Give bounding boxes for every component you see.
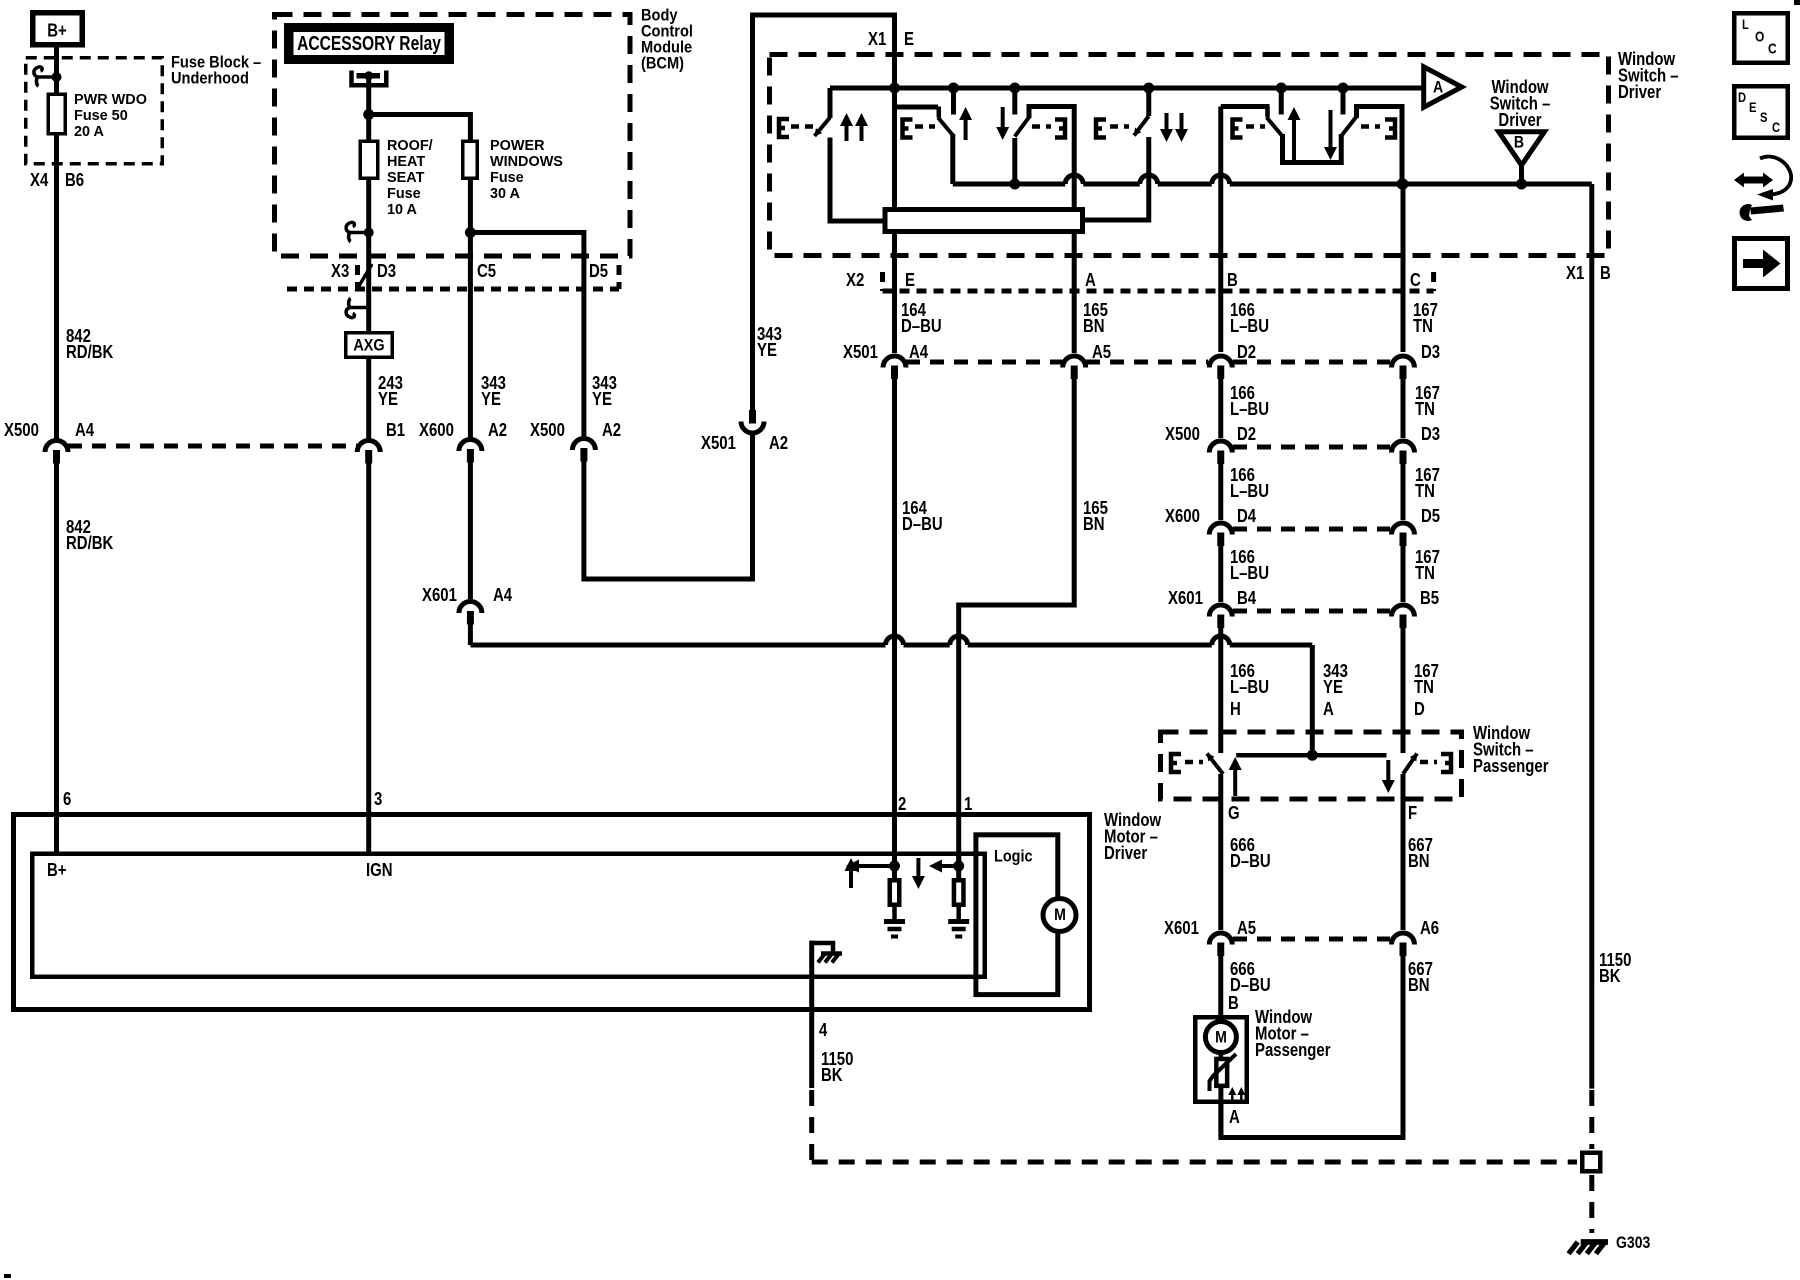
fuse ROOF/HEAT SEAT 10A — [360, 141, 378, 178]
svg-text:D–BU: D–BU — [901, 316, 942, 337]
hop over 165 wire — [950, 636, 968, 645]
svg-text:C: C — [1410, 270, 1421, 291]
svg-text:AXG: AXG — [353, 336, 384, 354]
svg-text:C: C — [1768, 41, 1777, 57]
wire: triangle B to output line — [1519, 165, 1524, 184]
passenger up arrow — [1233, 768, 1237, 796]
window motor driver outer box — [14, 815, 1090, 1010]
svg-text:B1: B1 — [386, 420, 405, 441]
terminal hook below X3 — [346, 299, 367, 318]
battery B+ box — [33, 13, 83, 45]
wire: S3 to bus bar — [1085, 137, 1149, 220]
svg-text:D5: D5 — [1421, 506, 1440, 527]
svg-text:D: D — [1414, 699, 1425, 720]
left arrow from pin2 — [857, 864, 895, 868]
svg-text:Fuse 50: Fuse 50 — [74, 108, 128, 124]
svg-text:POWER: POWER — [490, 138, 545, 154]
AXG box — [346, 333, 393, 358]
wire: pin 4 ground lead — [809, 941, 814, 1088]
S2 down arrow — [1001, 107, 1005, 129]
ground G303 — [1581, 1239, 1608, 1245]
resistor on pin2 leg — [890, 880, 900, 905]
svg-text:A6: A6 — [1420, 918, 1439, 939]
S2 left blade — [937, 107, 942, 118]
wire: 166 X600 to X601 — [1218, 545, 1223, 602]
left arrow from pin1 — [940, 864, 959, 868]
svg-text:TN: TN — [1415, 563, 1435, 584]
terminal hook in fuse block — [34, 67, 55, 86]
wire: X1 B output — [1589, 184, 1594, 1089]
svg-text:L–BU: L–BU — [1230, 563, 1269, 584]
svg-text:TN: TN — [1415, 481, 1435, 502]
ground below resistor 1 — [884, 919, 905, 924]
wire: 243 YE to motor pin 3 — [366, 463, 371, 852]
svg-text:D4: D4 — [1237, 506, 1257, 527]
double up arrows — [845, 124, 849, 141]
svg-text:RD/BK: RD/BK — [66, 342, 113, 363]
svg-text:30 A: 30 A — [490, 186, 520, 202]
window switch driver dashed box — [770, 55, 1609, 256]
svg-text:4: 4 — [819, 1020, 828, 1041]
svg-text:C5: C5 — [477, 261, 496, 282]
svg-text:Driver: Driver — [1104, 843, 1148, 864]
wire: POWER WINDOWS fuse output 343 — [468, 180, 473, 438]
wire: ROOF fuse output 243 — [366, 180, 371, 331]
svg-text:TN: TN — [1415, 399, 1435, 420]
page corner dot bottom left — [4, 1274, 11, 1278]
wire: 666 to passenger motor B — [1218, 955, 1223, 1021]
S2 up arrow — [964, 118, 968, 140]
junction on 343 wire — [465, 227, 476, 238]
wire: 167 between connectors — [1401, 378, 1406, 438]
window motor passenger box — [1195, 1017, 1247, 1102]
svg-text:X1: X1 — [1566, 263, 1584, 284]
double down arrows — [1165, 113, 1169, 131]
wire: C output — [1401, 184, 1406, 352]
svg-text:L: L — [1742, 17, 1749, 32]
passenger down arrow — [1386, 760, 1390, 782]
driver motor M circle — [1043, 899, 1076, 932]
svg-text:O: O — [1755, 29, 1764, 45]
svg-text:D–BU: D–BU — [1230, 851, 1271, 872]
svg-text:S: S — [1760, 110, 1767, 125]
svg-text:Driver: Driver — [1498, 110, 1542, 131]
resistor on pin1 leg — [956, 852, 961, 879]
dashed splice to G303 — [1589, 1175, 1594, 1233]
shortcut wrench icon — [1734, 173, 1773, 188]
S2 right actuator — [1032, 124, 1051, 129]
svg-text:X2: X2 — [846, 270, 864, 291]
junction at relay output — [363, 109, 374, 120]
S2 E actuator — [903, 120, 913, 138]
svg-text:10 A: 10 A — [387, 202, 417, 218]
wire: X501 feed up and over to X1 E — [753, 15, 895, 410]
svg-text:A: A — [1323, 699, 1334, 720]
svg-text:IGN: IGN — [366, 860, 393, 881]
wire: 343 YE to passenger switch pin A — [468, 624, 473, 645]
svg-text:A5: A5 — [1237, 918, 1256, 939]
wire: B output — [1221, 104, 1270, 109]
S4 right blade — [1341, 117, 1356, 137]
wire: S1 to bus bar — [830, 138, 883, 222]
S4 up arrow — [1292, 118, 1296, 160]
connector X3 dashed row — [287, 287, 619, 292]
hop over A wire — [1065, 175, 1083, 184]
wire: 166 to passenger switch H — [1218, 627, 1223, 753]
svg-text:1: 1 — [964, 794, 972, 815]
wire: E through bus bar to X2 — [892, 234, 897, 353]
wire: 164 D-BU to motor pin 2 — [892, 378, 897, 866]
svg-text:A5: A5 — [1092, 342, 1111, 363]
svg-text:A2: A2 — [769, 433, 788, 454]
svg-text:A: A — [1085, 270, 1096, 291]
svg-text:X600: X600 — [1165, 506, 1200, 527]
svg-text:D: D — [1738, 90, 1746, 105]
connector X500 A2 — [572, 439, 595, 451]
switch feed bus — [830, 86, 1423, 91]
svg-text:Passenger: Passenger — [1255, 1040, 1331, 1061]
svg-text:G: G — [1228, 803, 1240, 824]
passenger motor thermal protector — [1219, 1053, 1224, 1058]
body control module BCM dashed box — [275, 15, 631, 257]
svg-text:X1: X1 — [868, 29, 886, 50]
svg-text:X501: X501 — [843, 342, 878, 363]
svg-text:BN: BN — [1408, 975, 1430, 996]
svg-text:(BCM): (BCM) — [641, 54, 684, 72]
svg-text:D2: D2 — [1237, 424, 1256, 445]
svg-text:TN: TN — [1413, 316, 1433, 337]
wire: branch 343 to D5 — [470, 233, 584, 437]
svg-text:B: B — [1514, 133, 1524, 151]
svg-text:L–BU: L–BU — [1230, 677, 1269, 698]
ground below resistor 2 — [948, 919, 969, 924]
svg-text:ACCESSORY Relay: ACCESSORY Relay — [297, 32, 441, 54]
hop over B wire — [1212, 175, 1230, 184]
passenger right actuator — [1420, 760, 1437, 765]
wire: 166 between connectors — [1218, 378, 1223, 438]
window switch passenger dashed box — [1161, 732, 1462, 799]
svg-text:G303: G303 — [1616, 1234, 1650, 1252]
svg-text:A2: A2 — [602, 420, 621, 441]
dashed ground wire to G303 — [809, 1090, 814, 1162]
pass-through slash at X3 D3 — [356, 264, 372, 291]
up arrow inside motor — [849, 869, 853, 888]
svg-text:BN: BN — [1408, 851, 1430, 872]
wire: X1 E into switch — [892, 88, 897, 207]
hop over 166 wire — [1212, 636, 1230, 645]
svg-text:L–BU: L–BU — [1230, 399, 1269, 420]
svg-text:H: H — [1230, 699, 1241, 720]
svg-text:ROOF/: ROOF/ — [387, 138, 433, 154]
svg-text:Fuse: Fuse — [387, 186, 421, 202]
wire: 167 to passenger switch D — [1401, 627, 1406, 753]
wire: branch to POWER WINDOWS fuse — [369, 115, 471, 141]
svg-text:X4: X4 — [30, 170, 49, 191]
svg-text:SEAT: SEAT — [387, 170, 424, 186]
passenger-window up/down switch S2 in driver unit — [948, 83, 959, 94]
wire: 343 YE D5 to X501 A2 — [584, 435, 753, 579]
svg-text:B+: B+ — [47, 20, 67, 41]
svg-text:X500: X500 — [530, 420, 565, 441]
svg-text:L–BU: L–BU — [1230, 316, 1269, 337]
ACCESSORY relay box — [288, 27, 451, 61]
svg-text:M: M — [1054, 906, 1066, 924]
svg-text:WINDOWS: WINDOWS — [490, 154, 563, 170]
wire: A output below bus bar — [1072, 234, 1077, 353]
wire: 343 YE X600 to X601 — [468, 462, 473, 599]
wire: 667 to passenger motor A loop — [1221, 955, 1403, 1138]
svg-text:X3: X3 — [331, 261, 349, 282]
passenger switch E actuator — [1171, 754, 1181, 772]
svg-text:D5: D5 — [589, 261, 608, 282]
svg-text:C: C — [1772, 120, 1780, 135]
svg-text:Passenger: Passenger — [1473, 756, 1549, 777]
wire: relay output to fuses — [366, 78, 371, 140]
S2 right side — [1012, 138, 1017, 184]
svg-text:Driver: Driver — [1618, 82, 1662, 103]
wire: passenger motor A lead — [1218, 1088, 1223, 1138]
svg-text:RD/BK: RD/BK — [66, 533, 113, 554]
wire: 842 RD/BK lower segment to motor pin 6 — [54, 463, 59, 852]
svg-text:YE: YE — [1323, 677, 1343, 698]
svg-text:D–BU: D–BU — [902, 514, 943, 535]
bus bar rectangle — [885, 210, 1083, 232]
svg-text:PWR WDO: PWR WDO — [74, 92, 147, 108]
svg-text:E: E — [905, 270, 915, 291]
down arrow inside motor — [916, 858, 920, 878]
fuse POWER WINDOWS 30A — [463, 141, 478, 178]
svg-text:X500: X500 — [4, 420, 39, 441]
S4 E actuator — [1233, 120, 1243, 138]
svg-text:E: E — [904, 29, 914, 50]
connector X501 A2 — [741, 422, 764, 434]
fuse block underhood dashed box — [26, 58, 163, 164]
svg-text:Fuse: Fuse — [490, 170, 524, 186]
svg-text:A: A — [1229, 1107, 1240, 1128]
wire: G output 666 — [1218, 774, 1223, 930]
next-page arrow icon box — [1735, 239, 1788, 289]
svg-text:A2: A2 — [488, 420, 507, 441]
terminal hook above X3 — [346, 222, 367, 241]
driver down switch S3 — [1143, 83, 1154, 94]
svg-text:B5: B5 — [1420, 588, 1439, 609]
svg-text:A: A — [1433, 78, 1443, 96]
svg-text:B: B — [1600, 263, 1611, 284]
DESC icon box — [1734, 86, 1788, 138]
svg-text:X601: X601 — [1168, 588, 1203, 609]
wire: 166 X500 to X600 — [1218, 463, 1223, 520]
svg-text:A4: A4 — [493, 585, 513, 606]
wire: pin2 feed inside — [892, 815, 897, 878]
svg-text:E: E — [1749, 100, 1756, 115]
passenger switch right blade — [1403, 754, 1417, 775]
connector X600 A2 — [459, 440, 482, 452]
S4 right actuator — [1361, 124, 1380, 129]
svg-text:BK: BK — [821, 1065, 843, 1086]
thermal double up arrows — [1231, 1093, 1234, 1100]
svg-text:X500: X500 — [1165, 424, 1200, 445]
svg-text:B+: B+ — [47, 860, 67, 881]
relay contact symbol — [352, 71, 387, 86]
svg-text:B: B — [1227, 270, 1238, 291]
svg-text:HEAT: HEAT — [387, 154, 425, 170]
window motor driver inner box — [32, 854, 985, 977]
S2 common to output line — [950, 134, 955, 184]
connector X2 dashed row — [883, 289, 1434, 294]
svg-text:YE: YE — [592, 389, 612, 410]
page corner artifact — [1794, 0, 1800, 5]
hop over down-switch wire — [1140, 175, 1158, 184]
svg-text:D2: D2 — [1237, 342, 1256, 363]
connector X601 A4 — [459, 602, 482, 614]
svg-text:X600: X600 — [419, 420, 454, 441]
svg-text:X501: X501 — [701, 433, 736, 454]
wire: F output 667 — [1401, 774, 1406, 930]
rear/passenger switch S4 in driver unit — [1276, 83, 1287, 94]
svg-text:20 A: 20 A — [74, 124, 104, 140]
svg-text:BK: BK — [1599, 966, 1621, 987]
wire: 167 X500 to X600 — [1401, 463, 1406, 520]
svg-text:M: M — [1215, 1028, 1227, 1046]
switch output line — [953, 182, 1065, 187]
triangle connector B — [1499, 132, 1545, 165]
wire: E branch to S2 — [895, 105, 939, 110]
svg-text:3: 3 — [374, 789, 382, 810]
wire: B+ feed 842 RD/BK upper segment — [54, 48, 59, 440]
passenger switch left blade — [1207, 754, 1223, 775]
svg-text:D3: D3 — [377, 261, 396, 282]
dashed connector line X500 A4 to B1 — [68, 444, 357, 449]
svg-text:BN: BN — [1083, 316, 1105, 337]
driver up switch S1 — [828, 88, 833, 118]
svg-text:L–BU: L–BU — [1230, 481, 1269, 502]
passenger motor M circle — [1205, 1022, 1236, 1053]
logic box — [976, 835, 1058, 995]
wire: 167 X600 to X601 — [1401, 545, 1406, 602]
svg-text:Underhood: Underhood — [171, 69, 249, 87]
svg-text:B: B — [1228, 993, 1239, 1014]
fuse PWR WDO 50 20A — [48, 94, 65, 134]
svg-text:D3: D3 — [1421, 424, 1440, 445]
svg-text:BN: BN — [1083, 514, 1105, 535]
svg-text:X601: X601 — [422, 585, 457, 606]
svg-text:F: F — [1408, 803, 1417, 824]
triangle connector A — [1424, 67, 1462, 107]
svg-text:D3: D3 — [1421, 342, 1440, 363]
svg-text:YE: YE — [481, 389, 501, 410]
svg-text:TN: TN — [1414, 677, 1434, 698]
svg-text:X601: X601 — [1164, 918, 1199, 939]
svg-text:6: 6 — [63, 789, 71, 810]
dashed 1150 BK to splice — [1589, 1090, 1594, 1149]
svg-text:A4: A4 — [909, 342, 929, 363]
svg-text:B4: B4 — [1237, 588, 1257, 609]
svg-text:YE: YE — [757, 340, 777, 361]
svg-text:B6: B6 — [65, 170, 84, 191]
svg-text:YE: YE — [378, 389, 398, 410]
S4 moving contact U — [1283, 134, 1342, 163]
wire: 165 BN to motor pin 1 — [959, 378, 1074, 866]
connector B1 on 243 wire — [366, 359, 371, 439]
svg-text:Logic: Logic — [994, 847, 1033, 865]
svg-text:2: 2 — [898, 794, 906, 815]
S4 down arrow — [1329, 110, 1333, 149]
chassis ground pin 4 — [812, 943, 833, 953]
splice box — [1582, 1153, 1600, 1172]
svg-text:A4: A4 — [75, 420, 95, 441]
passenger switch common bar — [1236, 753, 1386, 758]
S4 left blade — [1265, 107, 1270, 118]
hop over 164 wire — [886, 636, 904, 645]
LOC icon box — [1734, 13, 1788, 63]
